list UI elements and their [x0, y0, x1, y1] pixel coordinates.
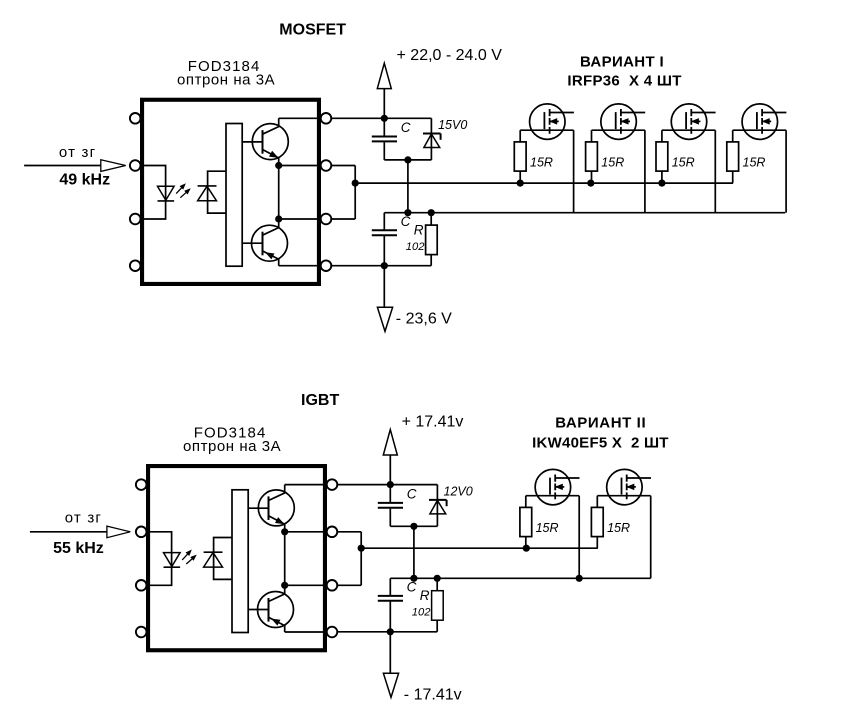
svg-text:IGBT: IGBT — [301, 392, 339, 409]
resistor R2 15R body — [586, 142, 598, 171]
U2 left pin 3 circle — [136, 580, 147, 591]
wire gate/source horizontal of VT6 IKW40EF5 — [597, 495, 650, 497]
svg-text:15R: 15R — [672, 156, 695, 170]
wire source of VT1 IRFP36 down to rail — [573, 130, 575, 213]
svg-text:MOSFET: MOSFET — [279, 22, 346, 39]
wire gate resistor top stub of VT5 IKW40EF5 — [525, 496, 527, 508]
junction dot on lower rail at x408 (top) — [404, 209, 411, 216]
junction dot V+ node (top) — [381, 115, 388, 122]
wire output tie vertical (top) — [354, 166, 356, 220]
wire C3/zener bottom link (bottom) — [390, 525, 437, 527]
resistor R5 15R body — [520, 507, 532, 536]
junction dot gate rail R5 (bottom) — [523, 545, 530, 552]
svg-text:оптрон на 3А: оптрон на 3А — [183, 438, 281, 455]
wire pin5 to V- node (top) — [331, 265, 431, 267]
Q21 emitter with arrow — [269, 516, 285, 532]
wire R102 top stub (top) — [430, 213, 432, 225]
resistor R102 body (bottom) — [432, 591, 444, 621]
wire resistor R4 bottom stub — [732, 171, 734, 183]
junction dot output node (bottom) — [358, 545, 365, 552]
wire C1/zener bottom link (top) — [384, 159, 431, 161]
wire input signal line (bottom) — [30, 531, 107, 533]
LED light arrow 1 (U1) — [176, 185, 184, 194]
Q21 base bar — [268, 496, 270, 520]
U2 right pin 8 circle — [327, 479, 338, 490]
wire to pin 5 (U2) — [285, 631, 327, 633]
U1 left pin 3 circle — [130, 214, 141, 225]
junction dot source rail R102 (top) — [428, 209, 435, 216]
wire photodiode top stub (U2) — [214, 538, 232, 568]
svg-text:+ 22,0 - 24.0 V: + 22,0 - 24.0 V — [397, 47, 503, 64]
junction dot collector/pin6 (U2) — [281, 582, 288, 589]
junction dot below C3 (bottom) — [410, 523, 417, 530]
junction dot gate rail R1 (top) — [517, 180, 524, 187]
wire pin6 to output node (top) — [331, 218, 355, 220]
wire photodiode bottom stub (U2) — [214, 567, 232, 579]
svg-text:15R: 15R — [601, 156, 624, 170]
LED light arrow 2 (U2) — [186, 556, 195, 564]
wire source of VT5 IKW40EF5 down to rail — [578, 496, 580, 579]
V+ supply arrow symbol (bottom) — [389, 455, 391, 485]
wire to pin 5 (U1) — [279, 265, 321, 267]
wire resistor R3 bottom stub — [661, 171, 663, 183]
wire source of VT3 IRFP36 down to rail — [714, 130, 716, 213]
wire source of VT4 IRFP36 down to rail — [785, 130, 787, 213]
V+ supply arrow symbol (top) — [383, 89, 385, 119]
wire to pin 8 (U2) — [285, 484, 327, 486]
U1 right pin 8 circle — [321, 113, 332, 124]
wire source of VT2 IRFP36 down to rail — [644, 130, 646, 213]
transistor VT2 IRFP36 circle and symbol — [601, 104, 637, 140]
Q12 base bar — [262, 232, 264, 256]
transistor VT3 IRFP36 circle and symbol — [671, 104, 707, 140]
transistor Q11 (NPN, top) circle — [252, 124, 288, 160]
wire gate/source horizontal of VT1 IRFP36 — [520, 129, 573, 131]
wire output mid vertical (U2) — [284, 532, 286, 586]
capacitor C2 (top) leads and plates — [383, 213, 385, 230]
U1 left pin 1 circle — [130, 113, 141, 124]
wire input signal line (top) — [24, 165, 101, 167]
svg-text:- 23,6 V: - 23,6 V — [396, 311, 452, 328]
driver block rectangle (U2) — [232, 490, 248, 633]
wire Q12 base — [242, 242, 262, 244]
wire R102 bottom stub (top) — [430, 255, 432, 266]
wire U1 pin2 to LED anode — [144, 166, 166, 201]
Q22 emitter with arrow — [269, 617, 285, 632]
svg-text:C: C — [401, 214, 411, 229]
wire pin5 to V- node (bottom) — [337, 631, 437, 633]
junction dot gate rail R2 (top) — [587, 180, 594, 187]
transistor VT4 IRFP36 circle and symbol — [742, 104, 778, 140]
junction dot V+ node (bottom) — [387, 481, 394, 488]
svg-text:55 kHz: 55 kHz — [53, 540, 104, 557]
U2 left pin 4 circle — [136, 627, 147, 638]
wire gate resistor top stub of VT4 IRFP36 — [732, 130, 734, 142]
wire gate/source horizontal of VT5 IKW40EF5 — [526, 495, 579, 497]
Q11 emitter with arrow — [263, 150, 279, 166]
photodiode D2b cathode bar — [204, 551, 223, 553]
U2 left pin 2 circle — [136, 527, 147, 538]
wire R102 bottom stub (bottom) — [436, 620, 438, 632]
transistor VT1 IRFP36 circle and symbol — [530, 104, 566, 140]
junction dot on lower rail at x414 (bottom) — [410, 575, 417, 582]
wire to pin 8 (U1) — [279, 117, 321, 119]
wire Q22 base — [248, 609, 268, 611]
wire gate drive rail (top) — [355, 182, 733, 184]
wire pin7 to output node (top) — [331, 165, 355, 167]
svg-text:- 17.41v: - 17.41v — [404, 687, 462, 704]
wire to pin 6 (U1) — [279, 218, 321, 220]
junction dot gate rail R3 (top) — [658, 180, 665, 187]
wire LED cathode to U2 pin3 — [150, 567, 172, 585]
U2 right pin 7 circle — [327, 527, 338, 538]
wire mid vertical to lower rail (bottom) — [413, 526, 415, 578]
junction dot V- node (top) — [381, 262, 388, 269]
wire Q11 base — [242, 141, 262, 143]
wire photodiode top stub (U1) — [208, 171, 226, 201]
wire Q21 base — [248, 507, 268, 509]
LED D1a (emitter diode) triangle — [158, 186, 175, 200]
svg-text:15R: 15R — [536, 521, 559, 535]
svg-text:15R: 15R — [743, 156, 766, 170]
svg-text:R: R — [414, 222, 424, 237]
transistor VT6 IKW40EF5 circle and symbol — [607, 469, 643, 505]
resistor R6 15R body — [591, 507, 603, 536]
wire U2 pin2 to LED anode — [150, 532, 172, 567]
wire gate drive rail (bottom) — [361, 547, 598, 549]
svg-text:ВАРИАНТ II: ВАРИАНТ II — [555, 415, 646, 432]
Q22 base bar — [268, 598, 270, 622]
svg-text:R: R — [420, 588, 430, 603]
svg-text:IRFP36 X 4 ШТ: IRFP36 X 4 ШТ — [567, 73, 681, 90]
svg-text:12V0: 12V0 — [444, 485, 473, 499]
junction dot emitter/pin7 (U2) — [281, 528, 288, 535]
LED D1a cathode bar — [158, 200, 175, 202]
Q21 collector to pin 8 corner — [269, 485, 285, 501]
svg-text:15R: 15R — [607, 521, 630, 535]
U2 left pin 1 circle — [136, 479, 147, 490]
wire mid vertical V+cap to lower rail (top) — [407, 160, 409, 213]
wire LED cathode to U1 pin3 — [144, 201, 166, 219]
resistor R4 15R body — [727, 142, 739, 171]
zener diode VD1 15V0 (top) — [430, 118, 432, 160]
wire R102 top stub (bottom) — [436, 578, 438, 590]
svg-text:IKW40EF5 X 2 ШТ: IKW40EF5 X 2 ШТ — [532, 435, 669, 452]
junction dot source rail R102 (bottom) — [434, 575, 441, 582]
junction dot output node (top) — [352, 180, 359, 187]
transistor VT5 IKW40EF5 circle and symbol — [535, 469, 571, 505]
transistor Q21 (NPN, top) circle — [258, 490, 294, 526]
photodiode D2b triangle — [204, 553, 223, 568]
U1 right pin 7 circle — [321, 160, 332, 171]
svg-text:C: C — [407, 486, 417, 501]
svg-text:15R: 15R — [530, 156, 553, 170]
input arrow (top) — [101, 160, 126, 172]
wire pin8 to V+ node (top) — [331, 117, 431, 119]
capacitor C3 (bottom) leads and plates — [389, 485, 391, 503]
zener diode VD2 12V0 (bottom) — [436, 485, 438, 527]
svg-text:от зг: от зг — [65, 510, 102, 527]
resistor R102 body (top) — [426, 225, 438, 255]
driver block rectangle (U1) — [226, 124, 242, 267]
optocoupler U2 FOD3184 package outline — [148, 466, 325, 650]
svg-text:оптрон на 3А: оптрон на 3А — [177, 72, 275, 89]
wire to pin 7 (U1) — [279, 165, 321, 167]
U2 right pin 5 circle — [327, 627, 338, 638]
Q12 collector corner — [263, 219, 279, 235]
U2 right pin 6 circle — [327, 580, 338, 591]
Q11 base bar — [262, 130, 264, 154]
wire resistor R6 bottom stub — [596, 537, 598, 549]
wire output mid vertical (U1) — [278, 166, 280, 220]
svg-text:102: 102 — [412, 607, 431, 619]
wire photodiode bottom stub (U1) — [208, 201, 226, 213]
LED light arrow 1 (U2) — [182, 551, 190, 560]
wire source of VT6 IKW40EF5 down to rail — [650, 496, 652, 579]
LED light arrow 2 (U1) — [180, 190, 189, 198]
junction dot collector/pin6 (U1) — [275, 215, 282, 222]
resistor R1 15R body — [514, 142, 526, 171]
junction dot below C1 (top) — [404, 156, 411, 163]
wire resistor R5 bottom stub — [525, 537, 527, 549]
svg-text:15V0: 15V0 — [438, 118, 467, 132]
svg-text:ВАРИАНТ I: ВАРИАНТ I — [580, 54, 664, 71]
wire to pin 7 (U2) — [285, 531, 327, 533]
junction dot source rail VT5 (bottom) — [576, 575, 583, 582]
Q11 collector to pin 8 corner — [263, 118, 279, 134]
wire resistor R2 bottom stub — [591, 171, 593, 183]
optocoupler U1 FOD3184 package outline — [142, 100, 319, 284]
junction dot emitter/pin7 (U1) — [275, 162, 282, 169]
wire gate resistor top stub of VT2 IRFP36 — [591, 130, 593, 142]
wire gate/source horizontal of VT3 IRFP36 — [662, 129, 715, 131]
svg-text:49 kHz: 49 kHz — [59, 172, 110, 189]
U1 right pin 5 circle — [321, 260, 332, 271]
transistor Q12 (PNP, bottom) circle — [252, 225, 288, 261]
V- supply arrow symbol (top) — [383, 266, 385, 308]
V- supply arrow symbol (bottom) — [389, 632, 391, 674]
Q12 emitter with arrow — [263, 251, 279, 266]
svg-text:C: C — [407, 579, 417, 594]
svg-text:102: 102 — [406, 241, 425, 253]
wire gate resistor top stub of VT6 IKW40EF5 — [596, 496, 598, 508]
LED D2a cathode bar — [164, 566, 181, 568]
wire source rail (top) — [384, 212, 785, 214]
wire source rail (bottom) — [390, 577, 650, 579]
U1 left pin 2 circle — [130, 160, 141, 171]
wire resistor R1 bottom stub — [519, 171, 521, 183]
transistor Q22 (PNP, bottom) circle — [258, 592, 294, 628]
U1 left pin 4 circle — [130, 260, 141, 271]
wire gate/source horizontal of VT2 IRFP36 — [592, 129, 645, 131]
wire gate resistor top stub of VT3 IRFP36 — [661, 130, 663, 142]
wire pin8 to V+ node (bottom) — [337, 484, 437, 486]
wire output tie vertical (bottom) — [360, 532, 362, 586]
wire gate/source horizontal of VT4 IRFP36 — [733, 129, 786, 131]
U1 right pin 6 circle — [321, 214, 332, 225]
input arrow (bottom) — [107, 526, 130, 538]
svg-text:от зг: от зг — [59, 144, 96, 161]
resistor R3 15R body — [656, 142, 668, 171]
wire to pin 6 (U2) — [285, 584, 327, 586]
wire pin7 to output node (bottom) — [337, 531, 361, 533]
junction dot V- node (bottom) — [387, 628, 394, 635]
capacitor C4 (bottom) leads and plates — [389, 578, 391, 595]
capacitor C1 (top) leads and plates — [383, 118, 385, 135]
Q22 collector corner — [269, 585, 285, 601]
LED D2a (emitter diode) triangle — [164, 553, 181, 567]
photodiode D1b cathode bar — [198, 185, 217, 187]
photodiode D1b triangle — [198, 186, 217, 201]
wire pin6 to output node (bottom) — [337, 584, 361, 586]
svg-text:C: C — [401, 120, 411, 135]
wire gate resistor top stub of VT1 IRFP36 — [519, 130, 521, 142]
svg-text:+ 17.41v: + 17.41v — [402, 414, 464, 431]
